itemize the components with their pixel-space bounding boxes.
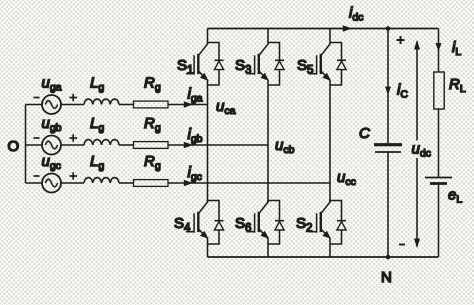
igbt S6 xyxy=(247,202,270,239)
igbt S1 xyxy=(186,44,209,81)
wire S2 emitter to bottom bus xyxy=(329,238,331,258)
wire capacitor branch lower xyxy=(387,152,389,257)
diode (antiparallel of S3) xyxy=(275,60,284,69)
wire leg drop to switch S4 xyxy=(207,200,209,203)
svg-text:uca: uca xyxy=(216,98,236,117)
wire load branch top xyxy=(438,29,440,73)
wire leg drop to switch S1 xyxy=(207,29,209,45)
wire antiparallel-diode branch of S5 xyxy=(330,43,342,86)
wire antiparallel-diode branch of S2 xyxy=(330,201,342,245)
wire antiparallel-diode branch of S1 xyxy=(208,43,220,86)
svg-text:S3: S3 xyxy=(235,57,251,77)
wire inductor to resistor (phase b) xyxy=(119,144,134,146)
igbt S3 xyxy=(247,44,270,81)
wire leg drop to switch S6 xyxy=(267,200,269,203)
wire from O bus to source u_gc xyxy=(26,182,43,184)
current arrow i_C xyxy=(385,87,391,96)
wire resistor to bridge leg (phase c) xyxy=(168,182,330,184)
polarity plus (source u_ga) xyxy=(70,94,78,101)
diode (antiparallel of S1) xyxy=(214,60,223,69)
svg-text:Lg: Lg xyxy=(90,153,104,172)
ac source u_gb xyxy=(42,136,61,155)
svg-text:RL: RL xyxy=(449,76,466,95)
wire resistor to bridge leg (phase a) xyxy=(168,104,208,106)
wire resistor RL to battery xyxy=(438,109,440,178)
ac source u_ga xyxy=(42,95,61,114)
inductor Lg (phase a) xyxy=(84,99,119,104)
polarity plus (source u_gb) xyxy=(70,134,78,141)
wire leg of phase a (S1 emitter to S4) xyxy=(207,80,209,203)
battery eL xyxy=(425,178,452,184)
diode (antiparallel of S2) xyxy=(337,221,346,230)
wire leg drop to switch S2 xyxy=(329,200,331,203)
wire S4 emitter to bottom bus xyxy=(207,238,209,258)
wire antiparallel-diode branch of S4 xyxy=(208,201,220,245)
ac source u_gc xyxy=(42,174,61,193)
svg-text:idc: idc xyxy=(349,5,363,24)
current arrow i_dc xyxy=(343,25,352,32)
svg-text:ugb: ugb xyxy=(42,115,62,134)
svg-text:N: N xyxy=(381,269,392,286)
svg-text:ucb: ucb xyxy=(275,137,295,156)
svg-text:Lg: Lg xyxy=(90,75,104,94)
inductor Lg (phase b) xyxy=(84,140,119,145)
current arrow i_gb xyxy=(184,142,193,149)
polarity minus (source u_gc) xyxy=(34,175,40,177)
svg-text:ucc: ucc xyxy=(337,169,356,188)
igbt S4 xyxy=(186,202,209,239)
wire source to inductor (phase a) xyxy=(61,104,84,106)
svg-text:igc: igc xyxy=(188,164,202,183)
polarity minus (source u_gb) xyxy=(34,137,40,139)
dc minus sign xyxy=(399,244,405,246)
wire inductor to resistor (phase a) xyxy=(119,104,134,106)
polarity minus (source u_ga) xyxy=(34,97,40,99)
svg-text:O: O xyxy=(8,138,20,155)
dc plus sign xyxy=(397,36,405,44)
svg-text:Lg: Lg xyxy=(90,115,104,134)
svg-text:iga: iga xyxy=(188,86,203,105)
node O (neutral) vertical bus wire xyxy=(25,105,27,184)
wire antiparallel-diode branch of S3 xyxy=(268,43,280,86)
capacitor C xyxy=(374,145,402,152)
wire leg of phase c (S5 emitter to S2) xyxy=(329,80,331,203)
resistor RL xyxy=(434,72,444,109)
igbt S2 xyxy=(309,202,332,239)
wire from O bus to source u_gb xyxy=(26,144,43,146)
wire inductor to resistor (phase c) xyxy=(119,182,134,184)
svg-text:igb: igb xyxy=(188,126,203,145)
svg-text:S2: S2 xyxy=(296,215,312,235)
polarity plus (source u_gc) xyxy=(70,172,78,179)
svg-text:S1: S1 xyxy=(177,57,193,77)
svg-text:iL: iL xyxy=(452,39,461,58)
current arrow i_L xyxy=(436,43,442,52)
inductor Lg (phase c) xyxy=(84,178,119,183)
svg-text:uga: uga xyxy=(42,75,62,94)
resistor Rg (phase b) xyxy=(134,142,169,149)
svg-text:S5: S5 xyxy=(297,57,313,77)
wire antiparallel-diode branch of S6 xyxy=(268,201,280,245)
wire source to inductor (phase c) xyxy=(61,182,84,184)
wire source to inductor (phase b) xyxy=(61,144,84,146)
wire leg of phase b (S3 emitter to S6) xyxy=(267,80,269,203)
wire leg drop to switch S3 xyxy=(267,29,269,45)
diode (antiparallel of S4) xyxy=(214,221,223,230)
current arrow i_ga xyxy=(184,101,193,108)
svg-text:ugc: ugc xyxy=(42,153,61,172)
wire dc bottom bus xyxy=(208,256,439,258)
svg-text:Rg: Rg xyxy=(144,115,161,134)
svg-text:Rg: Rg xyxy=(144,75,161,94)
diode (antiparallel of S5) xyxy=(337,60,346,69)
current arrow i_gc xyxy=(184,180,193,187)
wire S6 emitter to bottom bus xyxy=(267,238,269,258)
voltage arrow u_dc (double-headed) xyxy=(414,40,420,248)
svg-text:udc: udc xyxy=(412,141,431,160)
wire dc top bus xyxy=(208,28,439,30)
diode (antiparallel of S6) xyxy=(275,221,284,230)
wire capacitor branch upper xyxy=(387,29,389,144)
svg-text:C: C xyxy=(359,125,370,142)
svg-text:S6: S6 xyxy=(235,215,251,235)
junction node N xyxy=(386,255,391,260)
wire from O bus to source u_ga xyxy=(26,104,43,106)
junction node (top of capacitor branch) xyxy=(386,26,391,31)
igbt S5 xyxy=(309,44,332,81)
wire battery to bottom bus xyxy=(438,184,440,258)
svg-text:iC: iC xyxy=(397,82,408,101)
svg-text:eL: eL xyxy=(448,187,462,206)
resistor Rg (phase a) xyxy=(134,101,169,108)
svg-text:Rg: Rg xyxy=(144,153,161,172)
wire leg drop to switch S5 xyxy=(329,29,331,45)
svg-text:S4: S4 xyxy=(174,215,191,235)
resistor Rg (phase c) xyxy=(134,180,169,187)
wire resistor to bridge leg (phase b) xyxy=(168,144,268,146)
